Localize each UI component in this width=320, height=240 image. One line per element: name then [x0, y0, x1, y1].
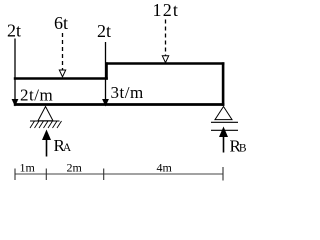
step between load blocks — [105, 62, 108, 79]
pin support A (triangle) — [38, 107, 53, 121]
distributed load 3t/m block top edge (right span) — [105, 62, 224, 65]
dimension ticks — [15, 167, 223, 181]
reaction arrow RB — [219, 127, 247, 156]
roller lines at B — [211, 122, 238, 130]
point load 12t (dashed arrow) — [153, 0, 180, 63]
ground hatching at A — [30, 121, 62, 128]
svg-text:2t: 2t — [7, 21, 21, 41]
svg-text:2m: 2m — [67, 161, 83, 175]
point load 2t at step — [97, 21, 111, 107]
roller support B (triangle) — [215, 107, 232, 120]
svg-text:2t: 2t — [97, 21, 111, 41]
svg-text:6t: 6t — [54, 13, 68, 33]
svg-text:1m: 1m — [20, 161, 36, 175]
dimension line — [15, 173, 224, 175]
distributed load 2t/m block top edge (left span) — [14, 77, 108, 80]
svg-text:12t: 12t — [153, 0, 180, 20]
reaction arrow RA — [42, 130, 72, 157]
point load 6t (dashed arrow) — [54, 13, 68, 77]
svg-text:4m: 4m — [157, 161, 173, 175]
beam bottom line (beam axis) — [14, 103, 225, 106]
svg-text:2t/m: 2t/m — [20, 86, 53, 105]
point load 2t at left end — [7, 21, 21, 107]
right end vertical edge of load block — [222, 62, 225, 106]
svg-text:3t/m: 3t/m — [111, 83, 144, 102]
